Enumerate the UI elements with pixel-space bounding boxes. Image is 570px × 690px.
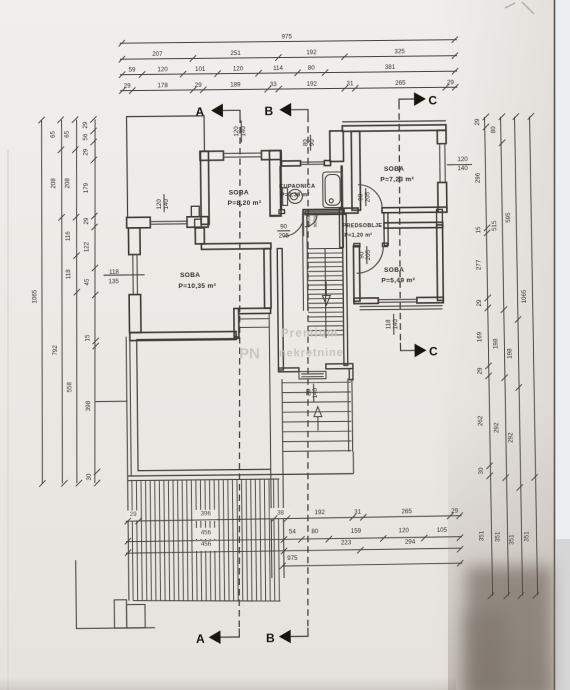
upper-floor overhang outline top-left xyxy=(127,116,206,218)
left dim column 65-208-792 xyxy=(50,117,68,487)
svg-text:178: 178 xyxy=(158,82,169,89)
extension lines to bottom dims xyxy=(127,452,284,600)
wall: stair enclosure bottom-right xyxy=(326,364,353,369)
svg-text:456: 456 xyxy=(201,541,212,548)
wall: niche right band xyxy=(330,131,344,162)
svg-text:105: 105 xyxy=(437,527,448,534)
bottom edge shadow xyxy=(0,676,456,690)
svg-text:SOBA: SOBA xyxy=(180,272,200,279)
svg-text:381: 381 xyxy=(385,64,396,71)
wall: predsoblje south jambs xyxy=(354,243,360,246)
window label 80/90 rotated xyxy=(302,135,316,151)
wall: bathroom bottom right segment xyxy=(303,209,344,213)
svg-text:29: 29 xyxy=(83,217,90,225)
boundary line bottom-left xyxy=(76,559,155,628)
section marker C bottom xyxy=(400,342,438,358)
terrace outer bottom edge xyxy=(128,474,354,476)
wall: soba 10,35 top right pier xyxy=(187,217,208,228)
wall: jog vertical to terrace xyxy=(234,308,239,337)
stairs upper flight treads xyxy=(308,248,344,335)
wall: jog horizontal above terrace xyxy=(239,308,271,314)
svg-text:29: 29 xyxy=(447,79,455,86)
svg-text:118: 118 xyxy=(65,269,72,279)
room label PREDSOBLJE xyxy=(343,223,383,239)
svg-text:179: 179 xyxy=(83,182,90,193)
door labels 60/205 and 80/205 rotated xyxy=(306,213,318,228)
bottom dim chain 456-223-294 xyxy=(125,538,464,556)
terrace bottom right connector xyxy=(352,452,354,474)
right dim column 1065-351 xyxy=(519,113,539,599)
wall: soba 8,20 bottom xyxy=(201,243,271,249)
wall: soba 5,49 north xyxy=(384,222,443,228)
svg-text:251: 251 xyxy=(230,50,241,57)
svg-text:120: 120 xyxy=(457,156,468,163)
room label soba 7,23 xyxy=(380,166,414,184)
svg-text:398: 398 xyxy=(85,400,92,411)
svg-text:189: 189 xyxy=(230,81,241,88)
wall: soba 8,20 left lower xyxy=(195,228,204,244)
wall: soba 7,23 right upper pier xyxy=(437,130,446,143)
photo shadow bottom right xyxy=(466,566,552,690)
svg-text:140: 140 xyxy=(457,165,468,172)
svg-text:38: 38 xyxy=(277,510,285,517)
door label 90/205 rotated (soba 5,49) xyxy=(359,246,373,264)
bottom dim chain 29-396-38-192-31-265-29 xyxy=(124,508,463,525)
svg-text:P=7,23 m²: P=7,23 m² xyxy=(380,176,414,183)
svg-text:265: 265 xyxy=(401,508,412,515)
svg-text:29: 29 xyxy=(130,511,138,518)
exterior niche block on left facade xyxy=(195,219,202,228)
bottom dim chain 975 xyxy=(279,553,463,569)
svg-text:169: 169 xyxy=(476,331,483,342)
section marker B top xyxy=(264,103,308,118)
svg-text:P=10,35 m²: P=10,35 m² xyxy=(178,283,216,290)
svg-text:15: 15 xyxy=(84,334,91,342)
svg-text:SOBA: SOBA xyxy=(229,189,249,196)
svg-text:59: 59 xyxy=(129,67,137,74)
svg-text:Premium: Premium xyxy=(281,327,339,340)
deck hatch boundary xyxy=(128,479,281,603)
svg-text:SOBA: SOBA xyxy=(384,267,404,274)
wall: soba 8,20 left upper xyxy=(200,151,209,224)
wall: soba 7,23 top xyxy=(342,121,446,122)
room label soba 10,35 xyxy=(178,272,216,290)
door 60/205 bathroom arc xyxy=(305,214,318,227)
svg-text:456: 456 xyxy=(201,529,212,536)
wall: soba 10,35 top left pier xyxy=(127,217,151,228)
svg-text:A: A xyxy=(196,632,205,646)
svg-text:29: 29 xyxy=(474,118,481,126)
svg-text:29: 29 xyxy=(82,121,89,129)
door label 90/205 rotated xyxy=(358,188,372,206)
svg-text:192: 192 xyxy=(306,49,317,56)
left reference extension line xyxy=(96,400,128,402)
window 80/90 bathroom top xyxy=(301,162,325,165)
svg-text:nekretnine: nekretnine xyxy=(279,347,344,360)
svg-text:296: 296 xyxy=(475,172,482,183)
wall: soba 5,49 east xyxy=(437,225,444,301)
bottom dim chain 456-54-80-159-120-105 xyxy=(125,527,464,545)
wall: bathroom bottom left jamb xyxy=(279,210,285,214)
stair label 80/140 rotated xyxy=(305,384,319,402)
top dimension chain 207-251-192-325 xyxy=(119,48,458,63)
svg-text:208: 208 xyxy=(64,178,71,189)
svg-text:595: 595 xyxy=(505,212,512,223)
svg-text:140: 140 xyxy=(312,387,319,398)
page edge fold line xyxy=(554,0,556,690)
svg-text:31: 31 xyxy=(346,80,354,87)
svg-text:101: 101 xyxy=(195,66,206,73)
svg-text:29: 29 xyxy=(476,299,483,307)
wall: stairwell left thin double xyxy=(302,213,307,311)
svg-text:KUPAONICA: KUPAONICA xyxy=(279,184,315,190)
wall: predsoblje east xyxy=(384,213,388,246)
wall: bathroom top left pier xyxy=(282,161,301,166)
svg-text:P=1,20 m²: P=1,20 m² xyxy=(344,233,372,239)
svg-text:56: 56 xyxy=(82,133,89,141)
wall: soba 10,35 left lower pier xyxy=(129,295,141,333)
wall: soba 5,49 south west pier xyxy=(354,298,378,304)
wall: soba 8,20 right xyxy=(269,151,281,217)
svg-text:80: 80 xyxy=(308,65,316,72)
svg-text:207: 207 xyxy=(152,51,163,58)
wall: soba 10,35 bottom xyxy=(130,332,236,341)
wall: east edge connector xyxy=(437,209,443,227)
svg-text:975: 975 xyxy=(282,33,293,40)
faint pencil marks top right xyxy=(505,2,534,14)
toilet xyxy=(283,188,303,206)
svg-text:90: 90 xyxy=(280,223,288,230)
svg-text:159: 159 xyxy=(351,528,362,535)
window 120/140 soba 10,35 top xyxy=(150,217,187,228)
wall: predsoblje north left jamb xyxy=(344,208,359,213)
svg-text:P=5,49 m²: P=5,49 m² xyxy=(381,277,415,284)
lower right pre-shadow xyxy=(448,400,555,690)
left dim column 1065 xyxy=(30,117,49,487)
section marker A bottom xyxy=(196,628,239,645)
svg-text:65: 65 xyxy=(50,130,57,138)
svg-text:223: 223 xyxy=(341,539,352,546)
svg-text:65: 65 xyxy=(64,130,71,138)
window label 118/140 rotated xyxy=(385,314,399,335)
right side shadow band xyxy=(430,0,555,690)
svg-text:45: 45 xyxy=(84,278,91,286)
wall: niche left edge xyxy=(280,151,282,162)
top dimension chain 975 xyxy=(118,32,457,47)
room label KUPAONICA xyxy=(279,184,315,199)
wall: bathroom top right pier xyxy=(324,161,330,166)
wall: bathroom left xyxy=(279,166,282,210)
window 118/140 soba 5,49 south xyxy=(359,299,442,310)
svg-text:120: 120 xyxy=(233,126,240,137)
wall: top of stairwell under bathroom xyxy=(305,211,344,215)
door jamb cap below soba 8,20 right wall xyxy=(270,214,281,216)
wall: soba 7,23 right lower pier xyxy=(438,182,447,212)
deck hatch stripes xyxy=(132,479,280,602)
stairs up arrow xyxy=(314,407,322,431)
wall: stair enclosure bottom-left xyxy=(278,368,298,372)
stairs down arrow xyxy=(322,282,330,306)
door label 90/205 xyxy=(277,223,290,239)
section line C-C dashed xyxy=(398,103,402,343)
svg-text:140: 140 xyxy=(392,319,399,330)
svg-text:31: 31 xyxy=(354,509,362,516)
svg-text:80: 80 xyxy=(490,126,497,134)
svg-text:192: 192 xyxy=(315,509,326,516)
svg-text:192: 192 xyxy=(307,81,318,88)
svg-text:277: 277 xyxy=(476,259,483,270)
svg-text:P=2,38 m²: P=2,38 m² xyxy=(281,191,310,198)
wall: right of soba 10,35 xyxy=(264,249,271,309)
section line B-B dashed xyxy=(303,116,314,628)
shaded strip right of fold xyxy=(555,539,570,690)
svg-text:15: 15 xyxy=(475,226,482,234)
wall: predsoblje west xyxy=(339,208,343,247)
wall: soba 7,23 left xyxy=(351,131,360,210)
svg-text:PREDSOBLJE: PREDSOBLJE xyxy=(343,223,383,229)
door 90/205 predsoblje to soba 7,23 arc xyxy=(358,184,382,208)
section marker C top xyxy=(399,92,438,108)
wall: soba 5,49 west xyxy=(353,246,360,302)
svg-text:B: B xyxy=(266,631,275,645)
room label soba 8,20 xyxy=(227,189,261,207)
wall: soba 8,20 top left pier xyxy=(200,151,224,160)
svg-text:120: 120 xyxy=(398,527,409,534)
window label 120/140 rotated (soba 8,20) xyxy=(233,120,247,142)
wall: corridor left below soba 8,20 xyxy=(277,249,283,371)
stairs lower flight sides xyxy=(282,378,353,452)
wall: soba 8,20 top right pier xyxy=(261,151,281,160)
label clearings on hatch for bottom dims xyxy=(127,508,292,552)
window 120/140 soba 8,20 top xyxy=(223,151,261,160)
wall: soba 10,35 left upper pier xyxy=(128,228,140,255)
window label 118/135 xyxy=(103,268,144,285)
svg-text:120: 120 xyxy=(233,65,244,72)
right dim column 80-515-198-292-351 xyxy=(490,113,510,599)
right dim column 595-198-292-351 xyxy=(504,113,524,599)
svg-text:29: 29 xyxy=(82,148,89,156)
svg-text:208: 208 xyxy=(50,178,57,189)
svg-text:C: C xyxy=(428,93,437,107)
svg-text:1065: 1065 xyxy=(521,289,528,303)
window 118/135 left wall xyxy=(129,255,141,295)
svg-text:80: 80 xyxy=(311,528,319,535)
window label 120/140 rotated (soba 10,35) xyxy=(156,194,170,212)
wall: landing right stub xyxy=(349,369,353,380)
stairs mid divider xyxy=(324,249,327,338)
stairs lower flight treads xyxy=(282,382,352,451)
svg-text:205: 205 xyxy=(279,232,290,239)
left dim column 65-208-116-118-558 xyxy=(64,116,83,486)
svg-text:198: 198 xyxy=(492,338,499,349)
svg-text:135: 135 xyxy=(108,278,119,285)
faint left paper edge xyxy=(7,150,9,690)
svg-text:29: 29 xyxy=(477,367,484,375)
top dimension chain 29-178-29-189-33-192-31-265-29 xyxy=(119,79,458,94)
svg-text:29: 29 xyxy=(124,83,132,90)
section line A-A dashed xyxy=(234,116,246,628)
window 120/140 soba 7,23 right xyxy=(437,144,447,183)
svg-text:515: 515 xyxy=(491,220,498,231)
svg-text:265: 265 xyxy=(395,80,406,87)
left dim column 29-56-29-179-29-122-45-15-398-30 xyxy=(82,116,100,486)
right dim column 29-296-15-277-29-169-29-262-30-351 xyxy=(474,114,494,600)
svg-text:P=8,20 m²: P=8,20 m² xyxy=(228,200,262,207)
svg-text:116: 116 xyxy=(65,231,72,241)
svg-text:1065: 1065 xyxy=(31,289,38,303)
svg-text:294: 294 xyxy=(405,539,416,546)
section marker A top xyxy=(195,103,240,118)
steps bottom-left xyxy=(114,600,145,629)
door 90/205 to soba 5,49 arc xyxy=(356,246,383,273)
svg-text:PN: PN xyxy=(239,345,260,362)
svg-text:29: 29 xyxy=(195,82,203,89)
wall: step to soba 8,20 left wall xyxy=(191,206,199,217)
svg-text:33: 33 xyxy=(270,81,278,88)
svg-text:30: 30 xyxy=(86,473,93,481)
svg-text:558: 558 xyxy=(66,382,73,393)
photo shadow deep corner xyxy=(462,612,506,690)
svg-text:A: A xyxy=(195,105,204,119)
room label soba 5,49 xyxy=(381,267,415,285)
wall: stairwell right xyxy=(342,214,347,365)
svg-text:SOBA: SOBA xyxy=(384,166,404,173)
svg-text:325: 325 xyxy=(394,48,405,55)
terrace door steps xyxy=(239,319,269,328)
right page strip beyond fold xyxy=(555,0,570,690)
svg-text:792: 792 xyxy=(52,345,59,356)
svg-text:198: 198 xyxy=(506,348,513,359)
section marker B bottom xyxy=(266,628,308,645)
bathtub xyxy=(323,172,343,208)
window label 120/140 horizontal right xyxy=(447,156,472,172)
svg-text:120: 120 xyxy=(157,66,168,73)
terrace outer double edge left xyxy=(126,337,131,476)
threshold sill at stair exit xyxy=(299,371,326,379)
svg-text:975: 975 xyxy=(287,555,298,562)
wall: soba 5,49 south east pier xyxy=(417,297,443,303)
terrace right inner edge to stairs xyxy=(269,313,271,469)
wall: predsoblje north right of door xyxy=(382,207,447,213)
terrace inner outline xyxy=(137,338,271,470)
svg-text:114: 114 xyxy=(273,65,283,72)
top dimension chain 59-120-101-120-114-80-381 xyxy=(119,63,458,78)
wall: bathroom right xyxy=(340,165,343,209)
svg-text:54: 54 xyxy=(289,528,297,535)
svg-text:396: 396 xyxy=(201,510,212,517)
door 90/205 corridor arc xyxy=(283,213,304,237)
svg-text:122: 122 xyxy=(83,241,90,252)
svg-text:C: C xyxy=(429,344,438,358)
svg-text:B: B xyxy=(264,104,273,118)
